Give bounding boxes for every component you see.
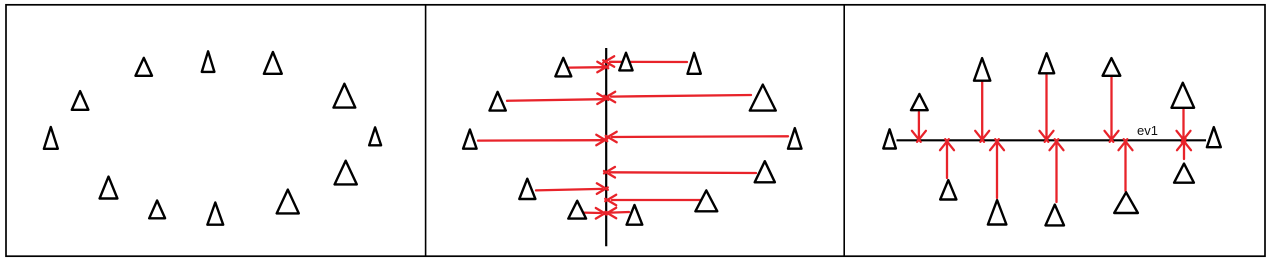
panel2 triangle row2 left: [490, 92, 506, 111]
panel1 triangle 2 (top-right): [264, 52, 282, 74]
panel2 arrow row5 left (to axis): [536, 183, 608, 194]
panel2 triangle row7 right: [627, 205, 643, 225]
panel2 triangle row1 right inner: [619, 53, 632, 71]
panel1 triangle 9 (left-lower): [100, 177, 118, 199]
panel2 arrow row1 right (to axis): [603, 56, 687, 67]
panel2 arrow row7 right (to axis): [605, 208, 629, 219]
panel3 triangle below 4: [1114, 192, 1138, 213]
panel3 triangle above 4: [1103, 58, 1121, 76]
panel2 arrow row2 right (to axis): [604, 92, 751, 103]
panel3 triangle below 2: [988, 200, 1007, 224]
panel2 arrow row4 right (to axis): [604, 167, 756, 178]
panel3 triangle above 1: [911, 94, 928, 110]
panel3 up arrow 4 (to axis): [1119, 139, 1133, 191]
panel3 triangle below 3: [1046, 205, 1065, 226]
panel1 triangle 1 (top): [202, 51, 215, 72]
panel3 triangle on-axis left: [883, 129, 896, 148]
panel3 triangle below 1: [940, 180, 956, 199]
panel1 triangle 12 (bottom): [207, 203, 223, 225]
panel2 arrow row7 left (to axis): [583, 208, 607, 219]
panel3 triangle above 2: [974, 58, 990, 81]
panel2 triangle row2 right (large): [750, 85, 776, 111]
panel3 up arrow 3 (to axis): [1050, 139, 1064, 202]
panel3 down arrow 5 (to axis): [1177, 109, 1191, 142]
panel2 arrow row3 left (to axis): [478, 135, 607, 146]
panel3 triangle below 5: [1174, 164, 1194, 183]
panel2 arrow row1 left (to axis): [569, 62, 608, 73]
panel2 arrow row3 right (to axis): [606, 132, 788, 143]
panel3 up arrow 1 (to axis): [940, 139, 954, 178]
panel1 triangle 7 (far-left): [44, 127, 58, 149]
panel1 triangle 4 (right-upper): [334, 84, 356, 108]
panel2 triangle row1 right outer: [688, 53, 701, 74]
panel2 triangle row4 right: [755, 161, 775, 182]
panel1 triangle 8 (right-lower): [335, 161, 357, 185]
svg-text:ev1: ev1: [1137, 123, 1158, 138]
panel3 down arrow 4 (to axis): [1105, 77, 1119, 142]
table column divider 1: [425, 5, 427, 256]
panel2 triangle row1 left: [555, 58, 571, 77]
panel3 up arrow 5 (to axis): [1177, 139, 1191, 159]
panel3 down arrow 1 (to axis): [912, 112, 926, 142]
table column divider 2: [843, 5, 845, 256]
panel1 triangle 11 (bottom-left): [149, 201, 165, 219]
panel1 triangle 3 (top-left): [136, 58, 153, 76]
panel3 down arrow 3 (to axis): [1040, 75, 1054, 142]
panel3 triangle above 5: [1172, 83, 1195, 108]
panel2 triangle row3 left: [463, 130, 477, 149]
panel2 arrow row2 left (to axis): [507, 93, 608, 104]
panel3 triangle above 3: [1039, 53, 1054, 73]
panel2 arrow row6 right (to axis): [605, 195, 700, 206]
panel3 triangle on-axis right: [1207, 127, 1221, 147]
panel3 up arrow 2 (to axis): [990, 139, 1004, 198]
panel2 triangle row5 left: [519, 179, 535, 199]
panel3 horizontal axis line ev1: [897, 139, 1207, 141]
panel2 triangle row6 right: [695, 190, 717, 211]
panel1 triangle 10 (bottom-right): [277, 190, 299, 214]
panel2 vertical axis line: [605, 48, 607, 246]
panel3 down arrow 2 (to axis): [975, 82, 989, 142]
panel1 triangle 6 (far-right): [369, 127, 381, 145]
panel2 triangle row3 right: [788, 128, 802, 149]
panel2 triangle row7 left: [568, 201, 586, 219]
panel1 triangle 5 (left-upper): [72, 91, 89, 110]
